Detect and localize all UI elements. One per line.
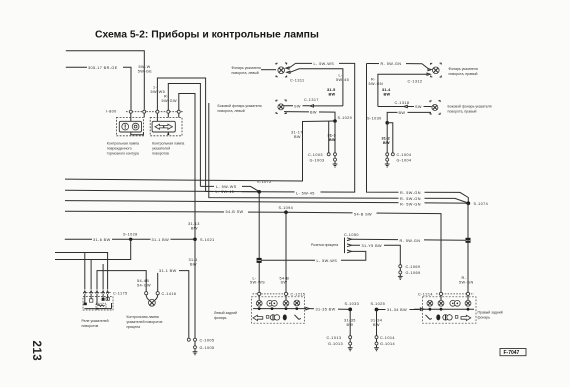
svg-text:S-1030: S-1030	[367, 116, 382, 120]
svg-text:BW: BW	[190, 262, 197, 266]
junction S-1094	[284, 210, 288, 214]
svg-text:C-1050: C-1050	[344, 233, 359, 237]
svg-text:L- 5W-45: L- 5W-45	[216, 190, 235, 194]
svg-text:S-1074: S-1074	[474, 202, 489, 206]
svg-text:R-: R-	[462, 276, 467, 280]
junction S-1029	[333, 119, 337, 123]
svg-text:R- 5W-GN: R- 5W-GN	[400, 202, 421, 206]
wire S-1030 down to C-1004	[386, 123, 388, 153]
junction S-1021	[193, 238, 197, 242]
svg-text:G-1003: G-1003	[310, 158, 325, 162]
svg-text:54-GW: 54-GW	[137, 283, 151, 287]
svg-text:поворота, левый: поворота, левый	[232, 71, 259, 75]
svg-text:5W-W: 5W-W	[139, 65, 151, 69]
svg-text:S-1072: S-1072	[257, 180, 272, 184]
svg-text:поворотов: поворотов	[82, 324, 99, 328]
svg-text:C-1317: C-1317	[304, 98, 319, 102]
wire bracket b2	[168, 84, 200, 187]
junction square left	[257, 258, 262, 263]
wire 31-35 BW to grounds	[304, 308, 306, 310]
wire S-1072 down to C-1215	[258, 192, 260, 292]
lamp module: turn signal indicator	[150, 118, 184, 156]
bus wire 1	[65, 121, 335, 181]
wire socket pin2 31-Y5 BW to ground	[352, 245, 401, 264]
svg-text:31-13: 31-13	[188, 222, 200, 226]
junction S-1074	[466, 201, 470, 205]
svg-text:поврежденного: поврежденного	[107, 146, 132, 150]
relay K1 connector C-1175	[83, 291, 128, 295]
wire lamp FR line2	[378, 74, 427, 106]
svg-text:54-B SW: 54-B SW	[354, 213, 372, 217]
svg-text:C-1003: C-1003	[308, 153, 323, 157]
wire bracket b3	[179, 94, 195, 240]
bus wire 4 54-B SW	[65, 211, 441, 292]
svg-text:Правый задний: Правый задний	[478, 310, 503, 314]
connector C-1013 / ground G-1013	[327, 309, 353, 350]
wire S-1074 down to C-1214	[467, 203, 469, 292]
wire socket pin3 to square left	[262, 251, 366, 260]
connector C-1069 / ground G-1069	[398, 265, 421, 280]
lamp rear-right unit C-1214	[414, 292, 476, 323]
lamp module: brake warning lamp	[107, 118, 144, 156]
wire S-1094 down to C-1215	[285, 212, 287, 292]
wire relay to C-1416	[97, 271, 146, 292]
svg-text:BW: BW	[399, 111, 406, 115]
svg-text:S-1028: S-1028	[123, 233, 138, 237]
svg-text:указателей: указателей	[152, 146, 170, 150]
junction square right	[466, 238, 471, 243]
svg-text:5W-GN: 5W-GN	[369, 82, 384, 86]
svg-text:31-34 BW: 31-34 BW	[387, 308, 407, 312]
svg-text:C-1069: C-1069	[406, 265, 421, 269]
svg-text:Фонарь указателя: Фонарь указателя	[449, 67, 478, 71]
svg-text:BW: BW	[329, 138, 336, 142]
svg-text:31-5: 31-5	[327, 88, 335, 92]
svg-text:L-: L-	[339, 73, 344, 77]
svg-text:5W-45: 5W-45	[336, 78, 349, 82]
svg-text:S-1033: S-1033	[345, 302, 360, 306]
svg-text:Розетка прицепа: Розетка прицепа	[311, 243, 338, 247]
wire stub P1	[55, 253, 108, 290]
svg-text:G-1004: G-1004	[397, 158, 412, 162]
wire bend L-5W-WS to S-1072	[200, 186, 259, 191]
svg-text:прицепа: прицепа	[127, 325, 141, 329]
svg-text:L- 5W-WS: L- 5W-WS	[314, 62, 335, 66]
svg-text:R-: R-	[371, 77, 376, 81]
svg-text:C-1014: C-1014	[380, 336, 395, 340]
svg-text:поворота, правый: поворота, правый	[448, 110, 477, 114]
svg-text:S-1094: S-1094	[279, 206, 294, 210]
svg-text:C-1416: C-1416	[162, 292, 177, 296]
wire 31-6 BW / 31-1 BW to S-1021	[65, 238, 195, 240]
trailer socket C-1050	[311, 233, 359, 253]
svg-text:31-2: 31-2	[382, 137, 390, 141]
wire socket pin1 R-5W-GN to square	[352, 239, 466, 240]
svg-text:G-1005: G-1005	[200, 346, 215, 350]
svg-text:тормозного контура: тормозного контура	[107, 151, 139, 155]
svg-text:R- 5W-GN: R- 5W-GN	[400, 239, 421, 243]
svg-text:31-6 BW: 31-6 BW	[93, 238, 111, 242]
lamp side-left turn signal	[218, 100, 287, 114]
wire S-1021 down to C-1005	[194, 239, 196, 338]
connector C-1003 / ground G-1003	[308, 153, 337, 167]
svg-text:C-1311: C-1311	[290, 79, 305, 83]
svg-text:поворота, правый: поворота, правый	[449, 72, 478, 76]
svg-text:I-800: I-800	[106, 109, 117, 113]
svg-text:5W-WS: 5W-WS	[250, 281, 265, 285]
svg-text:F-7047: F-7047	[504, 350, 520, 356]
svg-text:C-1215: C-1215	[291, 292, 306, 296]
svg-text:R- 5W-GN: R- 5W-GN	[400, 191, 421, 195]
svg-text:C-1214: C-1214	[418, 292, 433, 296]
junction S-1072	[257, 190, 261, 194]
svg-text:R-: R-	[164, 95, 169, 99]
svg-text:Фонарь указателя: Фонарь указателя	[232, 66, 261, 70]
svg-text:S-1025: S-1025	[371, 302, 386, 306]
svg-text:31-1 BW: 31-1 BW	[159, 269, 177, 273]
svg-text:Боковой фонарь указателя: Боковой фонарь указателя	[218, 104, 262, 108]
frame F-7047	[500, 349, 526, 357]
svg-text:поворотов: поворотов	[152, 151, 169, 155]
svg-text:SW: SW	[415, 105, 422, 109]
svg-text:C-1004: C-1004	[397, 153, 412, 157]
svg-text:5W-GW: 5W-GW	[162, 99, 177, 103]
svg-text:фонарь: фонарь	[478, 315, 491, 319]
svg-text:L-: L-	[253, 276, 258, 280]
connector C-1005 / ground G-1005	[187, 338, 214, 355]
svg-text:L- 5W-WS: L- 5W-WS	[216, 185, 237, 189]
connector C-1318	[378, 101, 432, 109]
svg-text:L- 5W-WS: L- 5W-WS	[317, 259, 338, 263]
svg-text:31-17: 31-17	[291, 131, 303, 135]
wire R-5W-GN right lamp feed	[367, 64, 469, 204]
svg-text:54-B SW: 54-B SW	[226, 210, 244, 214]
svg-text:5W-GE: 5W-GE	[138, 70, 152, 74]
svg-text:5W-W5: 5W-W5	[151, 90, 166, 94]
svg-text:C-1318: C-1318	[395, 101, 410, 105]
svg-text:фонарь: фонарь	[214, 316, 227, 320]
wire side-left BW to S-1029	[284, 112, 335, 121]
svg-text:указателей поворотов: указателей поворотов	[127, 320, 163, 324]
lamp front-left turn signal	[232, 63, 305, 83]
wire lamp FL line2	[290, 69, 343, 106]
svg-text:BW: BW	[383, 141, 390, 145]
svg-text:S-1029: S-1029	[338, 116, 353, 120]
bus wire 3	[65, 201, 468, 204]
svg-text:31-Y5 BW: 31-Y5 BW	[362, 244, 383, 248]
connector C-1014 / ground G-1014	[374, 310, 395, 351]
svg-text:BW: BW	[310, 111, 317, 115]
svg-text:5W-GN: 5W-GN	[459, 280, 474, 284]
svg-text:поворота, левый: поворота, левый	[218, 109, 245, 113]
junction S-1030	[385, 121, 389, 125]
svg-text:Контрольная лампа: Контрольная лампа	[127, 315, 159, 319]
svg-text:BW: BW	[191, 226, 198, 230]
svg-text:31-1 BW: 31-1 BW	[152, 238, 170, 242]
svg-text:C-1013: C-1013	[327, 336, 342, 340]
svg-text:R- 5W-GN: R- 5W-GN	[400, 197, 421, 201]
svg-text:31-4: 31-4	[382, 88, 391, 92]
junction S-1025	[375, 308, 379, 312]
svg-text:C-1005: C-1005	[200, 338, 215, 342]
svg-text:G-1014: G-1014	[380, 342, 395, 346]
wire side-right BW to S-1030	[387, 112, 431, 122]
wire feed A to I-800	[66, 51, 145, 110]
wire lamp FL top line	[289, 63, 296, 68]
svg-text:C-1312: C-1312	[408, 80, 423, 84]
svg-text:Реле указателей: Реле указателей	[82, 319, 109, 323]
svg-text:31-35 BW: 31-35 BW	[316, 307, 336, 311]
svg-text:R- 5W-GN: R- 5W-GN	[381, 62, 402, 66]
svg-text:Схема 5-2: Приборы и контрольн: Схема 5-2: Приборы и контрольные лампы	[95, 29, 319, 41]
svg-text:54-B: 54-B	[280, 276, 290, 280]
svg-text:BW: BW	[329, 92, 336, 96]
wire lamp FR top line	[367, 64, 429, 69]
svg-text:C-1175: C-1175	[113, 291, 128, 295]
lamp front-right turn signal	[408, 63, 478, 84]
svg-text:BW: BW	[294, 135, 301, 139]
connector C-1004 / ground G-1004	[385, 153, 412, 167]
junction S-1028	[129, 238, 132, 241]
wire S-1029 down to C-1003	[334, 121, 336, 153]
svg-text:305-17 BR-GE: 305-17 BR-GE	[88, 66, 118, 70]
svg-text:Контрольная лампа: Контрольная лампа	[107, 141, 139, 145]
wire feed B 305-17 BR-GE	[66, 67, 131, 110]
svg-text:54-4B: 54-4B	[137, 279, 149, 283]
svg-text:31-3: 31-3	[328, 134, 336, 138]
svg-text:Левый задний: Левый задний	[214, 311, 237, 315]
lamp rear-left unit C-1215	[252, 292, 306, 323]
svg-text:31-1: 31-1	[189, 258, 198, 262]
wire bend L-5W-45	[206, 191, 260, 193]
wire bracket b1	[157, 78, 205, 192]
svg-text:213: 213	[30, 341, 42, 362]
svg-text:Контрольная лампа: Контрольная лампа	[152, 141, 184, 145]
connector I-800 row	[106, 109, 183, 121]
svg-text:SW: SW	[294, 104, 301, 108]
svg-text:G-1069: G-1069	[406, 271, 421, 275]
svg-text:BW: BW	[384, 92, 391, 96]
wire stub P2 to S-1028	[55, 239, 131, 259]
svg-text:Боковой фонарь указателя: Боковой фонарь указателя	[448, 105, 492, 109]
wire V_d	[209, 103, 467, 203]
bus wire 2 L-5W-WS	[65, 63, 355, 192]
lamp side-right turn signal	[430, 101, 492, 115]
junction S-1033	[348, 308, 352, 312]
svg-text:G-1013: G-1013	[328, 342, 343, 346]
lamp trailer indicator C-1416	[127, 268, 189, 338]
svg-text:S-1021: S-1021	[200, 238, 215, 242]
svg-text:L- 5W-45: L- 5W-45	[296, 191, 315, 195]
connector C-1317	[284, 98, 343, 108]
relay K1 internals	[83, 294, 113, 310]
